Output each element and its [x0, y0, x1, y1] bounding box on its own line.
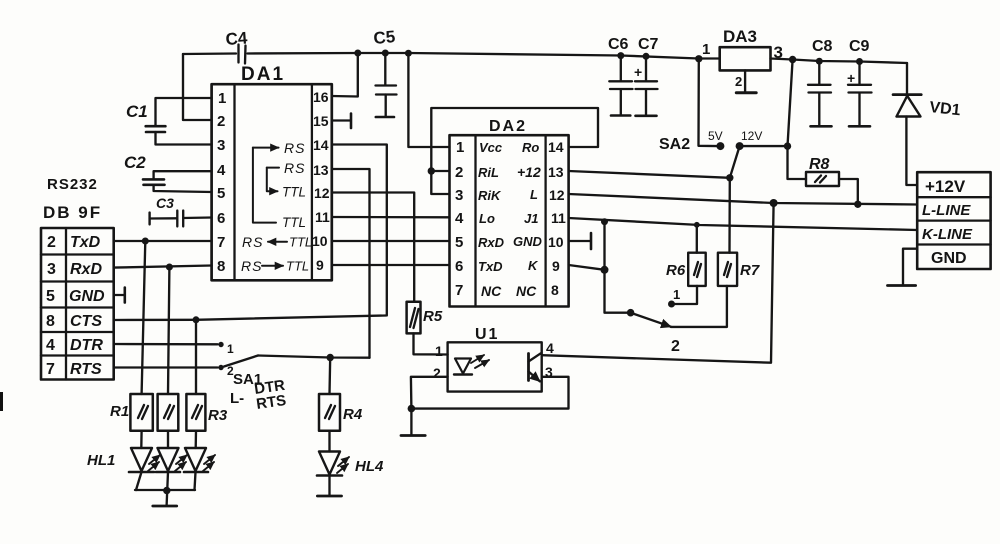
svg-text:8: 8: [551, 282, 559, 298]
svg-text:RxD: RxD: [478, 235, 505, 250]
node Kline-R6: [694, 222, 700, 228]
wire DA1 pin14 to CTS: [332, 145, 387, 316]
svg-text:15: 15: [313, 113, 329, 129]
resistor R5: [407, 302, 443, 334]
connector X1 box: [917, 172, 990, 269]
node TxD-R1: [142, 238, 149, 245]
capacitor C9 (polarized): [847, 38, 872, 126]
wire DA1 pin13 down: [332, 169, 370, 358]
wire SA1 output line: [258, 356, 370, 358]
svg-text:+: +: [847, 70, 855, 86]
DA1 internal bracket 14-11: [253, 148, 276, 223]
wire 12V contact to R8 node: [740, 145, 788, 147]
svg-text:RiL: RiL: [478, 165, 499, 180]
svg-text:TTL: TTL: [282, 215, 306, 230]
svg-text:R7: R7: [740, 262, 760, 279]
wire U1 pin4 to L-line: [542, 203, 774, 363]
node rail 12V tap: [789, 56, 796, 63]
wire R6 bottom lead: [672, 286, 698, 304]
svg-text:2: 2: [735, 74, 742, 89]
optocoupler U1: [433, 326, 554, 392]
node rail-DA2 Vcc: [405, 50, 412, 57]
wire R1 lead: [142, 241, 146, 394]
svg-text:11: 11: [551, 210, 566, 226]
svg-text:C5: C5: [373, 27, 396, 48]
switch SA2: [659, 59, 762, 153]
svg-text:HL4: HL4: [355, 458, 384, 475]
resistor R6: [666, 225, 706, 286]
svg-text:J1: J1: [524, 211, 538, 226]
connector X1 texts: [922, 177, 973, 267]
wire U1 pin3 loop: [411, 377, 568, 409]
svg-text:5V: 5V: [708, 129, 723, 143]
svg-text:7: 7: [46, 361, 55, 378]
wire R7 top lead: [728, 178, 731, 253]
svg-text:C6: C6: [608, 36, 629, 53]
svg-text:C3: C3: [156, 195, 174, 211]
svg-text:C1: C1: [126, 102, 148, 121]
resistor R4: [319, 394, 363, 431]
svg-text:11: 11: [315, 209, 330, 225]
svg-text:5: 5: [46, 288, 55, 305]
svg-text:4: 4: [546, 340, 554, 356]
wire +5V rail: [358, 53, 720, 59]
svg-text:1: 1: [702, 41, 710, 58]
DA1 right pin numbers: [312, 89, 330, 273]
U1 internal transistor: [529, 353, 542, 382]
wire U1 pin2 to ground: [411, 377, 448, 409]
wire DA2 pin2: [431, 170, 449, 172]
svg-text:1: 1: [227, 342, 234, 356]
node rail 5V tap: [695, 55, 702, 62]
wire R2 lead: [168, 267, 169, 394]
node U1 ground: [408, 405, 416, 413]
svg-text:C9: C9: [849, 38, 870, 55]
capacitor C2: [124, 153, 212, 192]
svg-text:RTS: RTS: [255, 392, 287, 413]
IC DA2: [450, 118, 569, 307]
wire DA2 loop pin3-pin14: [431, 108, 598, 194]
svg-text:9: 9: [316, 257, 324, 273]
tick DA2 pin10 GND: [569, 240, 590, 242]
svg-text:Lo: Lo: [479, 211, 495, 226]
wire LED commons: [136, 472, 142, 490]
resistor R2: [158, 394, 179, 431]
svg-text:7: 7: [455, 282, 463, 299]
svg-text:1: 1: [456, 139, 464, 156]
LED HL1: [129, 431, 160, 472]
svg-text:2: 2: [47, 234, 56, 251]
node rail C6: [617, 52, 624, 59]
svg-text:CTS: CTS: [70, 313, 102, 330]
svg-text:RTS: RTS: [70, 361, 102, 378]
svg-text:R3: R3: [208, 407, 228, 424]
node RxD-R2: [166, 264, 173, 271]
LED HL3: [184, 431, 215, 472]
contact 1 dot: [668, 301, 675, 308]
svg-text:TTL: TTL: [289, 235, 312, 250]
wire R4 lead: [328, 358, 331, 395]
resistor R1: [110, 394, 153, 431]
capacitor C4: [183, 28, 358, 63]
DA2 right pin names: [513, 140, 543, 299]
svg-text:9: 9: [552, 258, 560, 274]
regulator DA3: [702, 27, 783, 89]
svg-text:2: 2: [455, 164, 463, 181]
svg-text:8: 8: [217, 258, 225, 275]
svg-text:3: 3: [217, 137, 225, 154]
svg-text:R8: R8: [809, 156, 830, 173]
switch SA2 arm: [730, 146, 740, 178]
wire DA2 pin11 K-line: [569, 218, 918, 230]
svg-text:C8: C8: [812, 38, 833, 55]
wire VD1 anode to +12V pin: [906, 117, 917, 186]
svg-text:+12V: +12V: [925, 177, 966, 196]
svg-text:2: 2: [433, 365, 441, 381]
DA1 internal annotation row13 RS: [267, 160, 306, 176]
DA2 right pin numbers: [548, 139, 566, 298]
svg-text:Vcc: Vcc: [479, 140, 503, 155]
switch SA1: [218, 342, 262, 388]
svg-text:HL1: HL1: [87, 452, 115, 469]
svg-text:13: 13: [548, 164, 564, 180]
wire DA2 pin9 K: [569, 265, 605, 270]
U1 internal LED: [454, 355, 489, 375]
wire DA1 pin9 to DA2 pin6: [332, 264, 450, 266]
svg-text:12: 12: [549, 187, 565, 203]
svg-text:14: 14: [313, 137, 329, 153]
node LED common: [163, 487, 170, 494]
label L-DTR/RTS: [230, 377, 287, 413]
svg-text:7: 7: [217, 234, 225, 251]
svg-text:L-: L-: [230, 390, 244, 407]
DA2 left pin numbers: [455, 139, 464, 299]
wire rail right of DA3: [771, 59, 908, 64]
wire GND pin to ground: [903, 249, 917, 284]
svg-text:13: 13: [313, 162, 329, 178]
svg-text:R6: R6: [666, 262, 686, 279]
capacitor C8: [808, 38, 833, 126]
node pin9: [601, 266, 609, 274]
svg-text:L: L: [530, 187, 538, 202]
svg-text:RS: RS: [241, 258, 262, 274]
node pin13-R7: [726, 174, 733, 181]
wire DA1 pin16 to rail: [332, 53, 358, 97]
wire R5 to U1 pin1: [414, 333, 448, 354]
IC DA1: [212, 64, 332, 280]
ground LEDs: [153, 505, 177, 508]
node rail C8: [816, 58, 823, 65]
svg-text:10: 10: [548, 234, 564, 250]
svg-text:R5: R5: [423, 308, 443, 325]
svg-text:+12: +12: [517, 164, 541, 180]
wire R3 lead: [195, 320, 197, 394]
wire DA2 pin12 L-line: [569, 194, 918, 205]
svg-text:4: 4: [217, 162, 226, 179]
svg-text:1: 1: [435, 343, 443, 359]
svg-text:8: 8: [46, 313, 55, 330]
DA1 internal annotation row9 RS->TTL: [241, 258, 309, 274]
DA1 internal annotation row10 RS<-TTL: [242, 234, 312, 250]
svg-text:14: 14: [548, 139, 564, 155]
wire TxD to DA1 pin7: [114, 240, 212, 242]
svg-text:Ro: Ro: [522, 140, 539, 155]
svg-text:K: K: [528, 258, 539, 273]
svg-text:4: 4: [455, 210, 464, 227]
ground DA3 pin2: [744, 70, 746, 92]
svg-text:DB 9F: DB 9F: [43, 203, 102, 222]
svg-text:6: 6: [217, 210, 225, 227]
svg-text:RS232: RS232: [47, 176, 98, 193]
svg-text:4: 4: [46, 337, 55, 354]
svg-text:C2: C2: [124, 153, 146, 172]
DA1 left pin numbers: [217, 90, 226, 275]
DA2 left pin names: [478, 140, 505, 299]
capacitor C7 (polarized): [634, 36, 659, 116]
svg-text:RS: RS: [284, 160, 305, 176]
tick DB9 GND: [114, 294, 124, 296]
wire K vertical to lower switch: [605, 222, 631, 313]
svg-text:VD1: VD1: [929, 99, 962, 119]
ground connector: [888, 284, 916, 287]
wire C4 to DA1 pin2: [183, 54, 212, 120]
node R8-Lline: [854, 201, 861, 208]
svg-text:TTL: TTL: [282, 185, 306, 200]
svg-text:3: 3: [455, 187, 463, 204]
node 12V-R8: [784, 142, 791, 149]
switch K arm: [631, 313, 671, 327]
node DA2 pin2 loop: [428, 167, 435, 174]
svg-text:12V: 12V: [741, 129, 762, 143]
svg-text:3: 3: [47, 261, 56, 278]
capacitor C1: [126, 98, 212, 145]
svg-text:K-LINE: K-LINE: [922, 226, 973, 243]
node rail-pin16: [354, 50, 361, 57]
svg-text:2: 2: [217, 113, 225, 130]
svg-text:2: 2: [671, 338, 680, 355]
wire RxD to DA1 pin8: [114, 266, 212, 268]
svg-text:DA2: DA2: [489, 118, 527, 135]
wire DTR to SA1 contact1: [114, 343, 218, 346]
node Lline-U1: [770, 199, 778, 207]
resistor R7: [671, 253, 760, 327]
LED HL4: [317, 431, 384, 476]
node rail C7: [643, 53, 650, 60]
svg-text:16: 16: [313, 89, 329, 105]
tick DA1 pin15: [332, 119, 350, 121]
svg-text:R4: R4: [343, 406, 363, 423]
resistor R8: [788, 146, 858, 204]
svg-text:NC: NC: [481, 283, 502, 299]
resistor R3: [186, 394, 227, 431]
svg-text:RiK: RiK: [478, 188, 502, 203]
node SA1-R4: [327, 354, 334, 361]
DA1 internal annotation row14 arrow RS: [253, 140, 306, 156]
connector DB9 box: [41, 228, 114, 380]
node rail-C5: [382, 50, 389, 57]
svg-text:12: 12: [314, 185, 330, 201]
svg-text:1: 1: [673, 287, 680, 302]
wire CTS line: [114, 316, 386, 321]
wire rail 12V feed: [788, 60, 793, 147]
svg-text:TTL: TTL: [286, 259, 309, 274]
svg-text:GND: GND: [513, 234, 543, 249]
svg-text:RS: RS: [242, 234, 263, 250]
svg-text:5: 5: [217, 185, 225, 202]
wire DA1 pin11 to DA2 pin4: [332, 216, 450, 219]
svg-text:U1: U1: [475, 326, 499, 343]
capacitor C5: [373, 27, 397, 117]
svg-text:10: 10: [312, 233, 328, 249]
node rail C9: [856, 58, 863, 65]
svg-text:GND: GND: [931, 250, 967, 267]
ground U1: [410, 409, 412, 435]
svg-text:RxD: RxD: [70, 261, 102, 278]
node Kline-pin9: [601, 218, 608, 225]
wire DA2 pin13 +12 to switch/R7: [569, 171, 730, 178]
svg-text:TxD: TxD: [478, 259, 503, 274]
svg-text:DA1: DA1: [241, 64, 285, 85]
LED HL2: [156, 431, 187, 472]
svg-text:+: +: [634, 64, 642, 80]
wire DA1 pin10 to DA2 pin5: [332, 240, 450, 242]
scan mark left edge: [0, 392, 3, 411]
diode VD1: [893, 63, 961, 119]
svg-text:GND: GND: [69, 288, 105, 305]
svg-text:SA2: SA2: [659, 136, 690, 153]
svg-text:C7: C7: [638, 36, 659, 53]
svg-text:6: 6: [455, 258, 463, 275]
node lower switch pivot: [627, 309, 635, 317]
wire DA1 pin12 to R5: [332, 193, 414, 302]
svg-text:5: 5: [455, 234, 463, 251]
wire rail to DA2 pin1: [408, 53, 449, 147]
svg-text:1: 1: [218, 90, 226, 107]
svg-text:L-LINE: L-LINE: [922, 202, 971, 219]
svg-text:R1: R1: [110, 403, 129, 420]
ground HL4: [328, 476, 330, 496]
connector DB9 pin texts: [46, 234, 105, 378]
svg-text:DA3: DA3: [723, 27, 757, 46]
svg-text:RS: RS: [284, 140, 305, 156]
svg-text:TxD: TxD: [70, 234, 101, 251]
svg-text:NC: NC: [516, 283, 537, 299]
capacitor C3: [150, 195, 212, 226]
DA1 internal bracket 13-12: [267, 168, 278, 192]
wire RTS to SA1 contact2: [114, 366, 218, 368]
node CTS-R3: [193, 316, 200, 323]
capacitor C6: [608, 36, 633, 116]
svg-text:DTR: DTR: [70, 337, 103, 354]
